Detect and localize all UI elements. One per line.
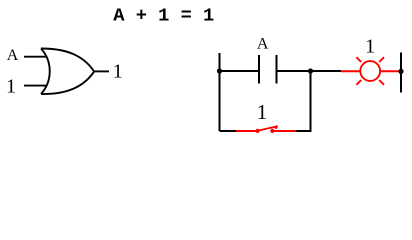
- svg-text:1: 1: [6, 75, 16, 97]
- wire (mid junction down to bottom branch): [310, 71, 312, 131]
- wire (bottom branch black right): [296, 130, 312, 132]
- wire (red, lamp to right rail): [380, 70, 399, 72]
- OR gate U1: [41, 48, 94, 94]
- svg-text:A: A: [7, 47, 19, 64]
- lamp rays: [356, 57, 384, 85]
- svg-text:1: 1: [113, 61, 123, 83]
- node (left rail junction dot): [217, 68, 222, 73]
- lamp 1 (red circle): [360, 61, 380, 81]
- contact A right plate: [276, 55, 278, 84]
- svg-text:1: 1: [257, 100, 268, 124]
- svg-text:1: 1: [365, 35, 375, 57]
- right power rail: [400, 53, 402, 93]
- wire (input 1 to gate): [24, 85, 47, 87]
- node (right rail junction dot): [398, 69, 403, 74]
- wire (input A to gate): [24, 56, 47, 58]
- wire (bottom branch red, right of switch): [272, 130, 296, 132]
- switch 1 blade (closed, red): [258, 126, 278, 130]
- wire (rail to contact A): [220, 70, 259, 72]
- node (mid junction dot): [308, 68, 313, 73]
- switch 1 terminal dots (red): [256, 129, 260, 133]
- wire (contact A to junction): [278, 70, 342, 72]
- wire (red, to lamp left): [341, 70, 360, 72]
- svg-text:A: A: [257, 36, 269, 53]
- contact A left plate: [258, 55, 260, 84]
- wire (bottom branch black left): [220, 130, 237, 132]
- left power rail: [219, 53, 221, 131]
- wire (gate output): [94, 70, 110, 72]
- wire (bottom branch red, left of switch): [236, 130, 258, 132]
- svg-text:A + 1 = 1: A + 1 = 1: [113, 4, 214, 26]
